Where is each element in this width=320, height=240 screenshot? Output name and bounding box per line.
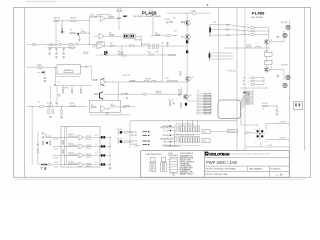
connector CN1 bbox=[209, 24, 211, 37]
resistor RF10 bbox=[63, 150, 64, 154]
wire U1C fb bbox=[96, 41, 98, 43]
svg-text:CN3: CN3 bbox=[203, 131, 206, 133]
capacitor CB1 bbox=[49, 47, 51, 50]
connector ring J2A bbox=[286, 75, 290, 79]
svg-text:RD2: RD2 bbox=[148, 52, 151, 54]
resistor RD2 bbox=[149, 54, 154, 55]
wire vbus 37.9 bbox=[37, 132, 39, 165]
svg-text:PWP 2000 / 4AB: PWP 2000 / 4AB bbox=[206, 160, 237, 165]
wire rail top bbox=[58, 20, 89, 22]
svg-text:LD3: LD3 bbox=[95, 153, 98, 155]
wire ring1 drop bbox=[283, 30, 285, 42]
bus v2 comp bbox=[66, 126, 68, 164]
svg-text:C1 C2 C3: C1 C2 C3 bbox=[49, 45, 55, 47]
frame margin line bbox=[23, 7, 25, 177]
title cell divider 1 bbox=[247, 166, 249, 171]
svg-text:C31 R31: C31 R31 bbox=[165, 19, 171, 21]
right panel inner line bbox=[304, 7, 306, 150]
wire bus right drop bbox=[88, 21, 90, 45]
svg-text:PL489-CN2: PL489-CN2 bbox=[228, 71, 236, 73]
resistor RT2 bbox=[169, 21, 173, 22]
svg-text:R67 R68: R67 R68 bbox=[68, 161, 73, 163]
resistor RS3 bbox=[175, 137, 176, 143]
relay coil KB1 bbox=[64, 71, 73, 73]
wire CH1 row 3 bbox=[255, 34, 269, 36]
resistor RA6 bbox=[69, 44, 74, 45]
comparator box bbox=[61, 126, 100, 167]
connector CN2 bbox=[208, 51, 210, 61]
wire CH1 row 1 bbox=[255, 27, 269, 29]
pin mark p2 bbox=[226, 29, 229, 30]
grid bottom rail bbox=[174, 144, 200, 146]
svg-text:-V 92VDC: -V 92VDC bbox=[279, 138, 287, 140]
node j bbox=[174, 34, 177, 37]
svg-text:1K2 D3: 1K2 D3 bbox=[54, 157, 59, 159]
drawing frame bbox=[14, 7, 311, 177]
resistor grid 4b bbox=[198, 126, 200, 132]
wire comp out 2 bbox=[84, 145, 111, 147]
ground G43 bbox=[247, 94, 250, 96]
wire input line A bbox=[27, 44, 97, 46]
node e bbox=[161, 54, 164, 57]
svg-text:RD1: RD1 bbox=[118, 51, 121, 53]
svg-text:CN5: CN5 bbox=[197, 91, 200, 93]
svg-text:R81 R82: R81 R82 bbox=[246, 45, 252, 47]
resistor RS2 bbox=[178, 126, 179, 132]
led LED5 bbox=[120, 131, 123, 134]
wire fuse link bbox=[248, 132, 254, 134]
resistor RB5 bbox=[83, 52, 88, 53]
wire bridge bot drop bbox=[260, 143, 262, 148]
wire v163 bbox=[162, 46, 164, 82]
svg-text:1K2 D1: 1K2 D1 bbox=[54, 139, 59, 141]
connector jack A bbox=[33, 43, 36, 46]
node led bus 1 bbox=[110, 137, 111, 138]
comparator U3A bbox=[79, 135, 84, 140]
wire CN1 p2 bbox=[211, 29, 230, 31]
resistor R22 bbox=[111, 106, 116, 107]
wire CB drop3 bbox=[63, 49, 65, 53]
resistor RE4 bbox=[94, 93, 98, 94]
ferrite FB11 bbox=[250, 30, 254, 32]
node d bbox=[186, 81, 189, 84]
resistor RB4 bbox=[80, 89, 81, 93]
wire bottom run bbox=[38, 164, 52, 166]
svg-text:RL53 1K: RL53 1K bbox=[86, 157, 91, 159]
wire mid rail bbox=[69, 32, 90, 34]
optocoupler row 1 bbox=[101, 136, 103, 138]
svg-text:Q31: Q31 bbox=[173, 18, 176, 20]
svg-text:R4: R4 bbox=[81, 29, 83, 31]
svg-text:R3: R3 bbox=[70, 30, 72, 32]
resistor RF9 bbox=[63, 141, 64, 145]
svg-text:IN: IN bbox=[38, 102, 40, 104]
ground G32 bbox=[42, 137, 45, 139]
node J6 bbox=[60, 105, 63, 108]
ferrite FB21 bbox=[250, 80, 254, 82]
wire input line B bbox=[27, 66, 58, 68]
wire vertical bus VB1 bbox=[55, 21, 57, 45]
wire res stub 1 bbox=[62, 85, 64, 89]
svg-text:1 2 3: 1 2 3 bbox=[57, 81, 60, 83]
resistor RS1 bbox=[175, 126, 176, 132]
ferrite FB22 bbox=[250, 83, 254, 85]
node comp 2 bbox=[63, 145, 66, 148]
resistor grid 2c bbox=[186, 137, 188, 143]
resistor grid 4c bbox=[196, 137, 198, 143]
wire comp row 4 bbox=[52, 164, 79, 166]
svg-text:R17: R17 bbox=[162, 43, 165, 45]
fuse oval FE1 bbox=[143, 93, 147, 95]
capacitor CP1 bbox=[276, 111, 279, 113]
bridge B1 diode 3 bbox=[256, 135, 258, 137]
bridge B1 diode 2 bbox=[261, 130, 263, 132]
svg-text:D21 D22: D21 D22 bbox=[54, 162, 59, 164]
bottom section left line bbox=[129, 121, 131, 148]
transistor Q489B bbox=[264, 67, 269, 72]
diode DL1 bbox=[41, 164, 43, 166]
node J10 bbox=[111, 81, 114, 84]
bus v1 comp bbox=[64, 126, 66, 164]
resistor RT3 bbox=[247, 47, 252, 48]
wire y13.1 bbox=[167, 12, 210, 14]
ribbon left labels bbox=[197, 93, 200, 116]
wire under box bbox=[55, 76, 80, 78]
svg-text:R1 100K: R1 100K bbox=[262, 103, 267, 105]
wire v277 bbox=[276, 106, 278, 110]
wire grid col 3 bbox=[192, 121, 194, 126]
resistor grid 1d bbox=[183, 137, 185, 143]
ground G42 bbox=[276, 76, 279, 78]
net elbow bus bbox=[174, 131, 176, 146]
title right edge bbox=[288, 151, 290, 178]
title block box bbox=[141, 151, 290, 178]
resistor R21 bbox=[91, 107, 96, 108]
wire CH1 collect bbox=[268, 28, 270, 40]
wire U2 out bbox=[118, 106, 136, 108]
connector SW2 bbox=[161, 158, 167, 172]
capacitor CB3 bbox=[63, 47, 65, 50]
connector ring J1A bbox=[286, 25, 290, 29]
resistor grid 1a bbox=[181, 126, 183, 132]
capacitor CB2b bbox=[55, 52, 57, 55]
transistor QT4 bbox=[185, 20, 191, 26]
resistor RL3 bbox=[50, 141, 51, 145]
transistor QT3 bbox=[183, 94, 188, 99]
node led bus 2 bbox=[110, 146, 111, 147]
svg-text:1 . 16: 1 . 16 bbox=[276, 174, 283, 177]
resistor RE8 bbox=[145, 81, 149, 82]
node J11 bbox=[116, 105, 119, 108]
supply rail v119 bbox=[118, 10, 120, 31]
svg-text:R21: R21 bbox=[91, 104, 94, 106]
diode DL2 bbox=[45, 164, 47, 166]
right bus line bbox=[289, 20, 291, 151]
resistor R19 bbox=[157, 44, 158, 49]
wire supply v153 bbox=[152, 11, 154, 36]
svg-text:LD1: LD1 bbox=[95, 135, 98, 137]
diff pair QE2 bbox=[99, 93, 101, 99]
wire diode row bbox=[37, 71, 45, 73]
svg-text:R11: R11 bbox=[109, 14, 112, 16]
resistor RB0 bbox=[71, 47, 75, 48]
node J12 bbox=[186, 12, 189, 15]
wire y46 to Q bbox=[183, 45, 187, 47]
capacitor C14 bbox=[121, 51, 123, 54]
resistor R16 bbox=[129, 45, 134, 46]
wire U1C in bbox=[92, 44, 97, 46]
resistor RC2 bbox=[61, 110, 62, 114]
wire vbus 50 down bbox=[49, 85, 51, 106]
node J5b bbox=[54, 84, 57, 87]
node grid 2 bbox=[186, 119, 189, 122]
resistor RE7 bbox=[130, 80, 135, 81]
ground QA1 bbox=[78, 40, 81, 42]
node a bbox=[55, 19, 58, 22]
comparator U3B bbox=[79, 144, 84, 149]
resistor grid 2d bbox=[188, 137, 190, 143]
svg-text:RE6 10R: RE6 10R bbox=[156, 91, 161, 93]
terminal box TB3 bbox=[228, 130, 238, 133]
resistor grid 4d bbox=[198, 137, 200, 143]
svg-text:RL1 24V: RL1 24V bbox=[65, 69, 71, 71]
svg-text:← L.INPUT ···: ← L.INPUT ··· bbox=[132, 146, 142, 148]
resistor RC3 bbox=[48, 110, 49, 114]
resistor grid 3d bbox=[193, 137, 195, 143]
svg-text:VBE: VBE bbox=[156, 51, 159, 53]
cable fan wires bbox=[241, 92, 247, 111]
svg-text:R63 R64: R63 R64 bbox=[68, 143, 73, 145]
op-amp U1C bbox=[97, 43, 106, 48]
transistor QT1b bbox=[186, 50, 188, 53]
node led bus 3 bbox=[110, 155, 111, 156]
pin mark p1 bbox=[226, 24, 229, 25]
resistor RC1 bbox=[48, 106, 53, 107]
wire stub up bbox=[88, 17, 90, 21]
optocoupler row 2 bbox=[101, 145, 103, 147]
resistor RE5 bbox=[122, 93, 126, 94]
resistor RG4 bbox=[87, 163, 91, 164]
wire comp out 1 bbox=[84, 136, 111, 138]
optocoupler row 4 bbox=[101, 163, 103, 165]
wire DA1 bbox=[61, 29, 63, 30]
wire CN1 p3 bbox=[211, 34, 230, 36]
pin ladder labels bbox=[250, 90, 254, 106]
wire res stub 3 bbox=[80, 85, 82, 89]
resistor grid 1c bbox=[181, 137, 183, 143]
resistor RT5 bbox=[181, 22, 184, 23]
node led bus 4 bbox=[110, 164, 111, 165]
resistor grid 1b bbox=[183, 126, 185, 132]
fuse FA2 bbox=[58, 44, 61, 46]
wire comp left v bbox=[45, 133, 47, 137]
svg-text:R1 10K: R1 10K bbox=[47, 103, 52, 105]
svg-text:Q42: Q42 bbox=[189, 95, 192, 97]
wire v118 drop bbox=[118, 82, 120, 101]
svg-text:C14 100n: C14 100n bbox=[121, 56, 127, 58]
fuse FP1 bbox=[245, 132, 249, 134]
wire vbus 57 down bbox=[56, 85, 58, 106]
wire CA1 drop bbox=[61, 21, 63, 28]
wire JE1 up bbox=[181, 87, 183, 94]
resistor RF5 bbox=[69, 154, 73, 155]
node comp 3 bbox=[63, 154, 66, 157]
svg-text:C41: C41 bbox=[262, 108, 265, 110]
svg-text:RL54 1K: RL54 1K bbox=[86, 166, 91, 168]
scan artifact top edge bbox=[26, 1, 56, 3]
resistor grid 3a bbox=[191, 126, 193, 132]
wire CN1 p1 bbox=[211, 24, 230, 26]
capacitor CBx bbox=[85, 66, 88, 68]
resistor RF6 bbox=[73, 154, 77, 155]
board edge line PL488 bbox=[218, 7, 220, 100]
wire bridge out bottom bbox=[266, 139, 290, 141]
svg-text:Q32: Q32 bbox=[174, 31, 177, 33]
output dot U2A bbox=[107, 108, 109, 110]
svg-text:REL CH2: REL CH2 bbox=[131, 135, 137, 137]
resistor RE9 bbox=[152, 81, 156, 82]
ground GL1 bbox=[40, 168, 43, 170]
comparator U3D bbox=[79, 162, 84, 167]
relay box KB1 bbox=[57, 65, 81, 74]
resistor RG1 bbox=[87, 136, 91, 137]
capacitor CT2 bbox=[179, 73, 181, 76]
capacitor CB2 bbox=[55, 47, 57, 50]
capacitor CT1 bbox=[179, 71, 181, 74]
wire QA1 emitter bbox=[78, 35, 80, 39]
svg-text:Q2: Q2 bbox=[271, 67, 273, 69]
ground GE1 bbox=[126, 98, 129, 100]
svg-text:IN5: IN5 bbox=[243, 81, 245, 83]
svg-text:OUT CH2: OUT CH2 bbox=[281, 64, 288, 66]
logo mark bbox=[205, 152, 209, 156]
section divider vertical PL488/PL489 bbox=[236, 7, 238, 150]
resistor R23 bbox=[126, 105, 130, 106]
svg-text:LD2: LD2 bbox=[95, 144, 98, 146]
wire CN2 p3 bbox=[210, 58, 233, 60]
svg-text:RL489: RL489 bbox=[265, 50, 269, 52]
capacitor CT4 bbox=[165, 21, 168, 23]
resistor RT4 bbox=[256, 47, 261, 48]
scan artifact bottom-left edge bbox=[15, 178, 305, 181]
svg-text:R8 R9 R10: R8 R9 R10 bbox=[62, 88, 69, 90]
svg-text:IN1: IN1 bbox=[243, 27, 245, 29]
title cell divider 2 bbox=[268, 166, 270, 177]
wire LED6 bbox=[130, 141, 133, 143]
wire Q489B out bbox=[270, 69, 285, 71]
node J7 bbox=[31, 105, 34, 108]
wire mute net bbox=[151, 35, 178, 37]
op-amp U2A bbox=[101, 106, 106, 112]
node k bbox=[166, 45, 169, 48]
svg-text:PL489: PL489 bbox=[252, 11, 265, 16]
resistor R15 bbox=[110, 45, 114, 46]
node b bbox=[61, 32, 64, 35]
resistor RD1 bbox=[119, 53, 124, 54]
bridge B1 diode 1 bbox=[256, 130, 258, 132]
wire LED5 bbox=[130, 131, 133, 133]
resistor grid 3c bbox=[191, 137, 193, 143]
resistor RC4 bbox=[52, 110, 53, 114]
wire input line C bbox=[27, 106, 87, 108]
svg-text:SPK PROT: SPK PROT bbox=[141, 44, 148, 46]
transistor QT2 bbox=[185, 76, 190, 81]
PL489 board edge bbox=[244, 7, 246, 150]
wire y57 rail bbox=[96, 54, 176, 56]
resistor RG11 bbox=[162, 127, 166, 128]
op-amp U1B bbox=[99, 33, 104, 39]
svg-text:4K7: 4K7 bbox=[76, 43, 79, 45]
svg-text:RE2: RE2 bbox=[166, 78, 169, 80]
connector ring J2B bbox=[283, 83, 287, 87]
capacitor C11 bbox=[117, 10, 119, 13]
wire CH1 row 2 bbox=[255, 30, 269, 32]
cable outline box bbox=[218, 100, 241, 119]
led bracket 6 bbox=[117, 140, 120, 143]
resistor R13 bbox=[110, 34, 114, 35]
node g bbox=[265, 87, 268, 90]
bridge frame wires bbox=[255, 133, 266, 135]
svg-text:RE8 RE9: RE8 RE9 bbox=[146, 79, 152, 81]
grid mid rail bbox=[174, 133, 200, 135]
wire comp row 1 bbox=[52, 136, 79, 138]
wire bottom rail B bbox=[54, 84, 92, 86]
transistor Q489A bbox=[264, 39, 269, 44]
ground GB2 bbox=[44, 80, 47, 82]
bridge B1 diode 4 bbox=[261, 135, 263, 137]
capacitor CB5 bbox=[44, 77, 46, 80]
node grid 4 bbox=[196, 119, 199, 122]
node J2 bbox=[88, 19, 91, 22]
resistor RF7 bbox=[69, 163, 73, 164]
capacitor C15 bbox=[152, 11, 154, 14]
node h bbox=[276, 105, 279, 108]
svg-text:LD5 CLIP: LD5 CLIP bbox=[116, 129, 122, 131]
node J1 bbox=[61, 19, 64, 22]
wire ring2 drop bbox=[283, 70, 285, 81]
wire bridge feed bbox=[240, 111, 242, 125]
capacitor C13 bbox=[166, 42, 168, 45]
resistor RC5 bbox=[71, 105, 76, 106]
relay box K489B bbox=[265, 60, 272, 64]
capacitor CT5 bbox=[181, 36, 184, 38]
comp cluster L bbox=[42, 141, 43, 145]
diode D489 bbox=[243, 92, 245, 94]
fuse FA1 bbox=[49, 44, 52, 46]
notes paragraph bbox=[180, 152, 194, 176]
resistor RL2 bbox=[37, 149, 38, 152]
ground GB0 bbox=[62, 57, 65, 59]
wire CB drop1 bbox=[49, 49, 51, 53]
svg-text:C7: C7 bbox=[44, 71, 46, 73]
wire v187 bbox=[186, 13, 188, 101]
connector jack B bbox=[38, 66, 43, 69]
resistor RF8 bbox=[73, 163, 77, 164]
ground GC1 bbox=[60, 117, 63, 119]
svg-text:GND PWR: GND PWR bbox=[162, 135, 169, 137]
svg-text:1K2 D4: 1K2 D4 bbox=[54, 166, 59, 168]
wire grid col 4 bbox=[197, 121, 199, 126]
wire comp row 2 bbox=[52, 145, 79, 147]
title row line 1 bbox=[205, 157, 290, 159]
svg-text:1K2 D2: 1K2 D2 bbox=[54, 148, 59, 150]
wire comp left feed bbox=[46, 136, 61, 138]
ribbon feed bbox=[187, 100, 196, 102]
wire U1B in bbox=[94, 35, 99, 37]
svg-text:R51 R52 R53 R54 0R22 5W: R51 R52 R53 R54 0R22 5W bbox=[176, 123, 195, 125]
capacitor CL1 bbox=[37, 143, 39, 146]
svg-text:Q1: Q1 bbox=[271, 39, 273, 41]
